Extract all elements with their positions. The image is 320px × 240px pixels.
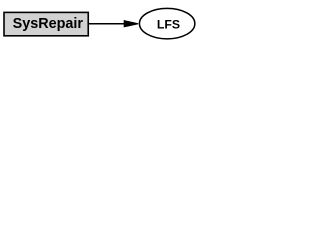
node LFS (ellipse): [139, 8, 194, 38]
wire edge SysRepair to LFS: [89, 23, 125, 25]
svg-text:SysRepair: SysRepair: [13, 16, 84, 32]
svg-text:LFS: LFS: [157, 17, 180, 31]
node SysRepair (box): [4, 12, 88, 35]
arrowhead: [124, 20, 139, 27]
